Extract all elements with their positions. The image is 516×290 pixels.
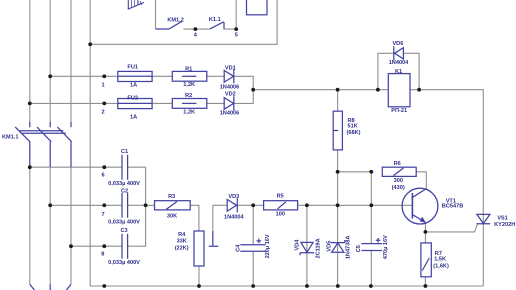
svg-text:R4: R4	[178, 232, 186, 238]
svg-text:K1.1: K1.1	[209, 17, 221, 23]
svg-text:300: 300	[394, 178, 403, 184]
svg-text:2C119A: 2C119A	[316, 238, 322, 258]
svg-text:VD6: VD6	[392, 41, 403, 47]
svg-text:6: 6	[101, 173, 104, 179]
svg-text:8: 8	[101, 251, 104, 257]
svg-text:BC547B: BC547B	[442, 203, 463, 209]
svg-text:C1: C1	[121, 149, 128, 155]
svg-text:51K: 51K	[348, 124, 358, 130]
svg-text:VS1: VS1	[497, 216, 508, 222]
svg-text:470µ 16V: 470µ 16V	[383, 235, 389, 259]
svg-text:1,5K: 1,5K	[434, 256, 446, 262]
svg-text:7: 7	[101, 212, 104, 218]
svg-text:(1,6K): (1,6K)	[433, 263, 449, 269]
svg-text:220µ 16V: 220µ 16V	[265, 234, 271, 258]
svg-text:R5: R5	[277, 194, 284, 200]
svg-text:C3: C3	[121, 228, 128, 234]
svg-text:C2: C2	[121, 188, 128, 194]
svg-text:KM1.2: KM1.2	[167, 17, 183, 23]
svg-text:K1: K1	[395, 69, 402, 75]
svg-text:5: 5	[235, 33, 238, 39]
svg-text:1,2K: 1,2K	[183, 82, 195, 88]
svg-text:R2: R2	[185, 93, 192, 99]
svg-text:FU2: FU2	[127, 96, 138, 102]
svg-text:0,033µ 400V: 0,033µ 400V	[108, 260, 140, 266]
svg-text:33K: 33K	[177, 239, 187, 245]
svg-text:30K: 30K	[167, 213, 177, 219]
svg-text:VD2: VD2	[225, 91, 236, 97]
svg-text:РП-21: РП-21	[391, 108, 407, 114]
svg-text:C4: C4	[235, 244, 241, 252]
svg-text:KM1.1: KM1.1	[2, 135, 18, 141]
svg-text:(68K): (68K)	[347, 130, 361, 136]
svg-text:1A: 1A	[130, 82, 137, 88]
svg-text:1A: 1A	[130, 115, 137, 121]
svg-text:VD5: VD5	[326, 241, 332, 252]
svg-text:100: 100	[276, 212, 285, 218]
svg-text:1N4004: 1N4004	[389, 60, 409, 66]
svg-text:1: 1	[101, 83, 104, 89]
svg-text:0,033µ 400V: 0,033µ 400V	[108, 219, 140, 225]
svg-text:R1: R1	[185, 67, 192, 73]
svg-text:1N4006: 1N4006	[220, 111, 240, 117]
svg-text:FU1: FU1	[127, 64, 138, 70]
svg-text:VD1: VD1	[225, 65, 236, 71]
svg-text:1N4004: 1N4004	[224, 215, 244, 221]
svg-text:C5: C5	[356, 245, 362, 252]
svg-text:1N4738A: 1N4738A	[345, 236, 351, 260]
svg-text:1N4006: 1N4006	[220, 84, 240, 90]
svg-text:1,2K: 1,2K	[183, 110, 195, 116]
svg-text:VD4: VD4	[295, 239, 301, 251]
svg-text:R6: R6	[394, 161, 401, 167]
svg-text:KY202H: KY202H	[494, 222, 515, 228]
svg-text:(22K): (22K)	[175, 246, 189, 252]
svg-text:0,033µ 400V: 0,033µ 400V	[108, 181, 140, 187]
svg-text:(430): (430)	[392, 185, 405, 191]
svg-text:VD3: VD3	[228, 194, 239, 200]
svg-text:R3: R3	[168, 194, 175, 200]
svg-text:2: 2	[101, 110, 104, 116]
